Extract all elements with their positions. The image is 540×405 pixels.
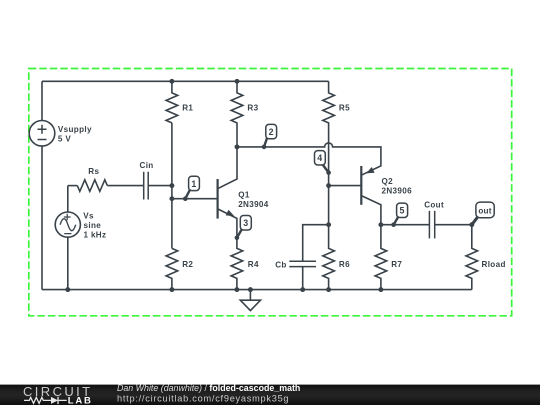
svg-text:LAB: LAB [68,395,93,405]
node Cb/R6 junction [326,222,331,227]
svg-text:Vs: Vs [83,211,94,220]
svg-text:out: out [478,206,491,215]
node tag 5 [391,203,407,227]
svg-text:Cb: Cb [275,260,287,269]
svg-text:R6: R6 [339,260,350,269]
resistor R7 [375,225,402,290]
svg-text:3: 3 [243,218,248,228]
wire Cin to input node [148,185,172,187]
transistor Q2 2N3906 [361,166,412,225]
svg-text:Rload: Rload [482,260,506,269]
schematic boundary (green dashed) [29,69,512,316]
svg-text:4: 4 [317,153,322,163]
node Vs bottom junction [65,287,70,292]
wire top rail [42,80,329,82]
svg-text:R3: R3 [247,104,258,113]
svg-text:R7: R7 [391,260,402,269]
node R3 top junction [235,79,240,84]
node 2 junction (R3/Q1 collector) [235,144,240,149]
wire left rail upper [41,81,43,120]
svg-text:Cout: Cout [424,201,444,210]
transistor Q1 2N3904 [218,147,269,238]
node tag 2 [262,124,277,149]
wire bottom rail [42,289,472,291]
wire Q2 base [329,185,362,187]
svg-text:http://circuitlab.com/cf9eyasm: http://circuitlab.com/cf9eyasmpk35g [117,393,289,403]
svg-text:Q1: Q1 [238,190,250,199]
node tag 4 [315,151,331,175]
node Cb bottom junction [300,287,305,292]
resistor R5 [323,81,350,224]
source Vs sine [55,186,106,290]
wire Rs to Cin [107,185,143,187]
node tag 3 [235,216,252,241]
wire Vs to Rs [68,185,78,187]
svg-text:R1: R1 [182,104,193,113]
node tag out [472,202,494,225]
node input junction (base wire) [169,196,174,201]
resistor Rs [77,167,107,192]
svg-text:2N3904: 2N3904 [238,200,269,209]
wire left rail lower [41,146,43,290]
node tag 1 [183,176,199,201]
capacitor Cout [424,201,444,239]
node R7 top junction [378,222,383,227]
ground [240,287,260,310]
resistor Rload [466,225,506,290]
node input junction (Cin) [169,183,174,188]
node R6 bottom junction [326,287,331,292]
svg-text:5: 5 [399,206,404,216]
CircuitLab logo [23,384,93,405]
wire Cout to out node [435,224,472,226]
svg-text:Q2: Q2 [382,177,394,186]
wire R1 to R2 column [171,123,173,248]
capacitor Cb [275,260,316,289]
svg-text:R2: R2 [182,260,193,269]
svg-text:sine: sine [84,221,102,230]
node R2 bottom junction [169,287,174,292]
wire Q1 base [172,198,218,200]
node R1 top junction [169,79,174,84]
node R4 bottom junction [234,287,239,292]
resistor R4 [231,238,259,290]
wire R6 top to Cb [303,225,329,262]
svg-text:Rs: Rs [88,167,99,176]
resistor R1 [166,81,193,123]
resistor R6 [323,225,350,290]
svg-text:Vsupply: Vsupply [58,125,92,134]
svg-text:1 kHz: 1 kHz [84,231,107,240]
svg-text:Dan White (danwhite) / folded-: Dan White (danwhite) / folded-cascode_ma… [117,383,300,393]
svg-text:R4: R4 [248,260,259,269]
wire node 5 to Cout [381,224,430,226]
resistor R2 [166,248,193,289]
voltage source Vsupply [29,121,92,147]
svg-text:2: 2 [269,127,274,137]
wire node 2 to Q2 emitter (hop over R5 column) [237,143,381,175]
node R7 bottom junction [378,287,383,292]
resistor R3 [231,81,258,147]
svg-text:R5: R5 [339,104,350,113]
node Q2 base junction [326,183,331,188]
svg-text:5 V: 5 V [58,135,71,144]
node out junction [469,222,474,227]
svg-text:Cin: Cin [140,161,154,170]
svg-text:2N3906: 2N3906 [382,186,413,195]
svg-text:1: 1 [191,179,196,189]
capacitor Cin [140,161,154,200]
